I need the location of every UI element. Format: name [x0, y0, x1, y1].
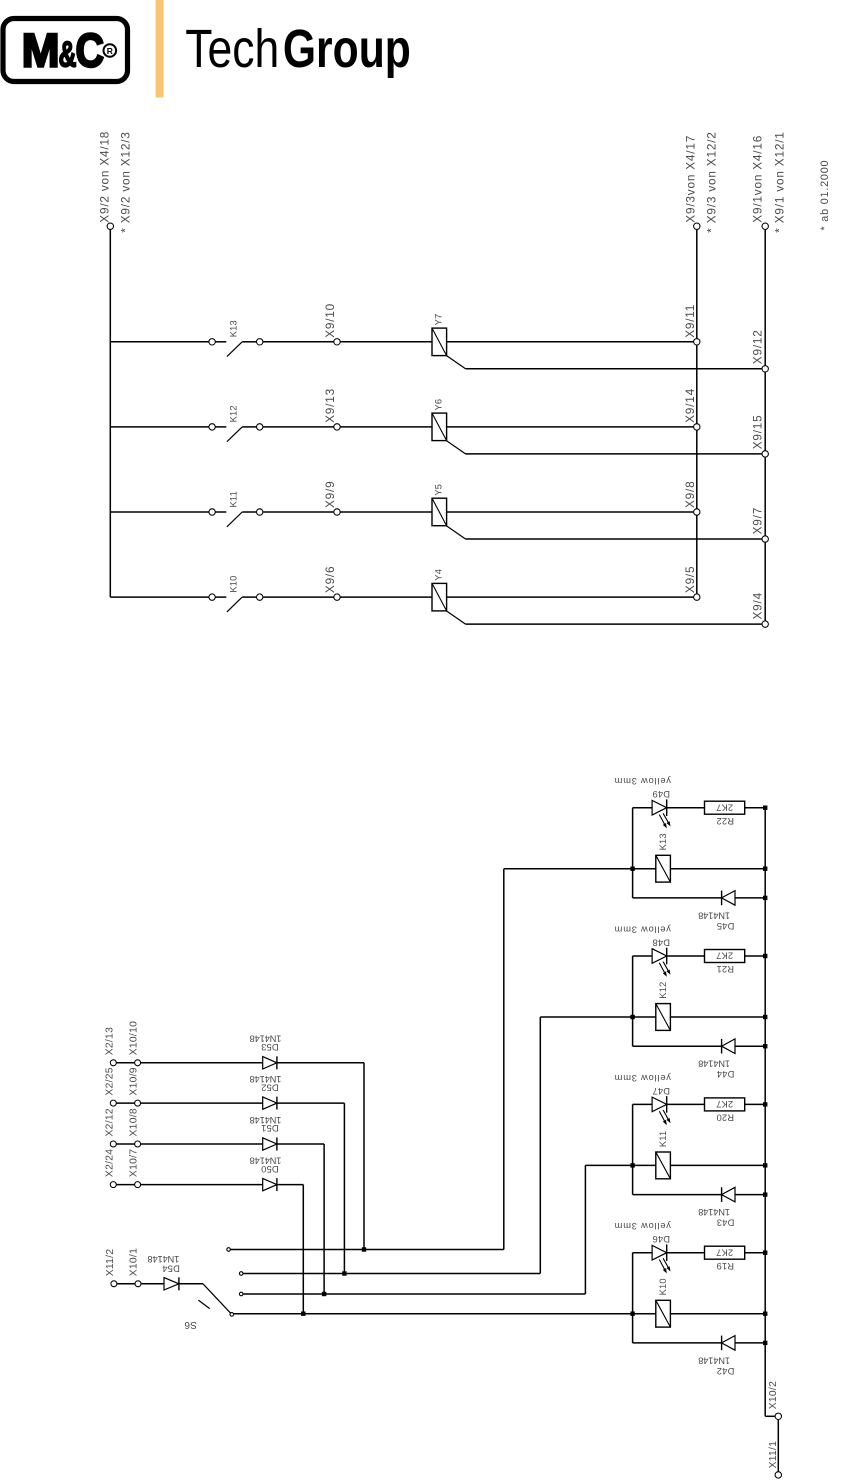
junction feeder/K11 — [630, 1163, 634, 1167]
svg-text:&: & — [59, 33, 77, 74]
svg-text:X9/12: X9/12 — [751, 329, 765, 364]
label 1N4148 for D44 — [698, 1059, 730, 1069]
svg-text:D49: D49 — [652, 789, 670, 799]
wire: feed line 1 — [230, 869, 632, 1250]
label 1N4148 for D54 — [148, 1254, 180, 1264]
svg-text:S6: S6 — [184, 1319, 197, 1330]
svg-text:X11/1: X11/1 — [768, 1441, 779, 1469]
label K12 coil — [658, 982, 668, 999]
node X9/15 — [762, 451, 768, 457]
wire: left bus vertical — [109, 230, 111, 597]
diode D51 1N4148 — [263, 1138, 277, 1151]
svg-text:X9/5: X9/5 — [683, 566, 697, 593]
wire: right bus vertical (bottom) — [765, 808, 775, 1417]
wire: diode D52 to drop — [277, 1103, 345, 1273]
label 2K7 for R21 — [716, 951, 733, 961]
wire: resistor to bus — [745, 807, 766, 809]
wire: node to valve Y5 — [340, 511, 432, 513]
label yellow 3mm for D49 — [614, 776, 671, 786]
node X9/8 — [694, 509, 700, 515]
label * X9/2 von X12/3 — [119, 131, 133, 232]
svg-text:D51: D51 — [261, 1123, 279, 1133]
label X10/1 — [129, 1248, 140, 1276]
resistor R20 2K7 — [705, 1098, 745, 1111]
label 2K7 for R22 — [716, 802, 733, 812]
svg-text:K10: K10 — [229, 575, 239, 592]
wire: rung 1 to node — [263, 341, 334, 343]
wire: LED row K10 group — [633, 1252, 653, 1254]
node X9/5 — [694, 594, 700, 600]
label D46 — [652, 1234, 670, 1244]
wire: valve Y6 diagonal drop — [446, 441, 762, 454]
wire: X11/2 to diode D54 — [117, 1283, 164, 1285]
svg-text:D45: D45 — [717, 921, 735, 931]
wire: diode row K12 group — [633, 1045, 722, 1047]
label 1N4148 for D51 — [250, 1115, 282, 1125]
svg-text:D54: D54 — [162, 1263, 180, 1273]
svg-text:2K7: 2K7 — [716, 802, 733, 812]
wire: LED row K12 group — [633, 955, 653, 957]
wire: rung 4 left segment — [110, 596, 208, 598]
diode D54 1N4148 — [164, 1277, 179, 1290]
svg-text:X9/1von X4/16: X9/1von X4/16 — [750, 135, 764, 223]
junction bus relay row 1 — [763, 867, 767, 871]
wire: rung 2 left segment — [110, 426, 208, 428]
junction drop 2 — [342, 1271, 346, 1275]
label X9/4 — [751, 592, 765, 619]
orange divider bar — [156, 0, 164, 98]
LED D49 yellow 3mm — [652, 799, 670, 828]
svg-text:X10/1: X10/1 — [129, 1248, 140, 1276]
label D44 — [717, 1069, 735, 1079]
svg-text:D47: D47 — [652, 1086, 670, 1096]
svg-text:Group: Group — [283, 19, 411, 79]
label X9/9 — [323, 481, 337, 508]
wire: bus1 vertical — [696, 230, 698, 594]
svg-text:* X9/2 von X12/3: * X9/2 von X12/3 — [119, 131, 133, 232]
svg-text:yellow 3mm: yellow 3mm — [614, 776, 671, 786]
wire: valve Y5 diagonal drop — [446, 526, 762, 539]
wire: diode to bus — [735, 1045, 765, 1047]
label 1N4148 for D43 — [698, 1207, 730, 1217]
solenoid valve Y5 — [432, 498, 447, 526]
junction feeder/K12 — [630, 1015, 634, 1019]
relay coil K11 — [633, 1152, 766, 1179]
node: terminal X10/1 — [135, 1281, 141, 1287]
diode D53 1N4148 — [263, 1056, 277, 1069]
wire: valve Y6 to bus1 — [447, 426, 694, 428]
node X9/7 — [762, 536, 768, 542]
label K13 — [229, 320, 239, 337]
node X9/12 — [762, 366, 768, 372]
svg-text:Y6: Y6 — [434, 399, 444, 411]
label R22 — [716, 816, 734, 826]
node: terminal X10/2 — [775, 1413, 781, 1419]
wire: diode to bus — [735, 1342, 765, 1344]
label X10/10 — [128, 1021, 139, 1055]
label 1N4148 for D50 — [250, 1156, 282, 1166]
node: feed line 3 start — [239, 1292, 243, 1296]
label D51 — [261, 1123, 279, 1133]
node: terminal X11/2 — [111, 1281, 117, 1287]
label D54 — [162, 1263, 180, 1273]
contact K13 — [209, 339, 263, 357]
wire: diode row K11 group — [633, 1194, 722, 1196]
wire: valve Y4 diagonal drop — [446, 611, 762, 624]
svg-text:2K7: 2K7 — [716, 951, 733, 961]
junction bus relay row 3 — [763, 1163, 767, 1167]
label K11 coil — [658, 1131, 668, 1147]
label X2/24 — [104, 1149, 115, 1177]
wire: rung 3 to node — [263, 511, 334, 513]
node: terminal X10/7 — [135, 1182, 141, 1188]
note * ab 01.2000 — [819, 160, 831, 231]
svg-text:K12: K12 — [229, 405, 239, 422]
node: switch S6 output — [230, 1313, 234, 1317]
label X9/10 — [323, 303, 337, 338]
diode D52 1N4148 — [263, 1097, 277, 1110]
label X9/5 — [683, 566, 697, 593]
wire: diode row K10 group — [633, 1342, 722, 1344]
wire: row 1 to diode D53 — [116, 1062, 262, 1064]
node: terminal X9/3 (bus1 top) — [694, 223, 700, 229]
wire: row 4 to diode D50 — [116, 1184, 262, 1186]
LED D47 yellow 3mm — [652, 1096, 670, 1125]
label X10/8 — [128, 1108, 139, 1136]
svg-text:D50: D50 — [261, 1164, 279, 1174]
wire: X10/2 to X11/1 — [777, 1420, 779, 1472]
svg-text:X9/9: X9/9 — [323, 481, 337, 508]
svg-text:2K7: 2K7 — [716, 1099, 733, 1109]
wire: rung 4 to node — [263, 596, 334, 598]
label X10/7 — [128, 1149, 139, 1177]
relay coil K13 — [633, 855, 766, 882]
svg-text:yellow 3mm: yellow 3mm — [614, 925, 671, 935]
svg-text:X9/7: X9/7 — [751, 507, 765, 534]
svg-text:R21: R21 — [716, 964, 734, 974]
node: terminal X2/12 — [110, 1141, 116, 1147]
svg-text:* X9/1 von X12/1: * X9/1 von X12/1 — [773, 131, 787, 232]
junction bus diode row 2 — [763, 1044, 767, 1048]
wire: node to valve Y4 — [340, 596, 432, 598]
svg-text:yellow 3mm: yellow 3mm — [614, 1221, 671, 1231]
label D47 — [652, 1086, 670, 1096]
wire: LED to resistor R19 — [667, 1252, 705, 1254]
wire: LED to resistor R20 — [667, 1103, 705, 1105]
wire: rung 2 to node — [263, 426, 334, 428]
label X9/15 — [751, 414, 765, 449]
label 2K7 for R20 — [716, 1099, 733, 1109]
label yellow 3mm for D47 — [614, 1073, 671, 1083]
label D49 — [652, 789, 670, 799]
label X9/1von X4/16 — [750, 135, 764, 223]
wire: branch vertical K12 group — [632, 956, 634, 1046]
label Y7 — [434, 314, 444, 326]
solenoid valve Y4 — [432, 583, 447, 611]
label X2/12 — [104, 1108, 115, 1136]
junction drop 4 — [301, 1312, 305, 1316]
svg-text:X9/13: X9/13 — [323, 388, 337, 423]
svg-text:K13: K13 — [658, 833, 668, 850]
svg-text:X10/10: X10/10 — [128, 1021, 139, 1055]
junction bus relay row 2 — [763, 1015, 767, 1019]
wire: D54 to switch S6 — [179, 1283, 203, 1285]
svg-text:C: C — [76, 23, 105, 76]
relay coil K10 — [633, 1300, 766, 1327]
label * X9/1 von X12/1 — [773, 131, 787, 232]
diode D42 1N4148 (freewheel) — [722, 1336, 735, 1351]
node: terminal X9/1 (bus2 top) — [762, 223, 768, 229]
wire: LED row K11 group — [633, 1103, 653, 1105]
label K10 — [229, 575, 239, 592]
node X9/13 — [334, 424, 340, 430]
svg-text:X2/12: X2/12 — [104, 1108, 115, 1136]
wire: valve Y7 diagonal drop — [446, 355, 762, 368]
node X9/4 — [762, 621, 768, 627]
wire: resistor to bus — [745, 1103, 766, 1105]
wire: rung 3 left segment — [110, 511, 208, 513]
diode D43 1N4148 (freewheel) — [722, 1187, 735, 1202]
svg-text:R19: R19 — [716, 1261, 734, 1271]
svg-text:D42: D42 — [717, 1366, 735, 1376]
svg-text:1N4148: 1N4148 — [148, 1254, 180, 1264]
junction bus LED row 2 — [763, 954, 767, 958]
label R20 — [716, 1113, 734, 1123]
svg-text:X10/9: X10/9 — [128, 1067, 139, 1095]
wire: branch vertical K10 group — [632, 1253, 634, 1343]
label X10/2 — [768, 1381, 779, 1409]
label X10/9 — [128, 1067, 139, 1095]
svg-text:R22: R22 — [716, 816, 734, 826]
svg-text:2K7: 2K7 — [716, 1247, 733, 1257]
wire: diode to bus — [735, 1194, 765, 1196]
svg-text:D48: D48 — [652, 937, 670, 947]
node X9/6 — [334, 594, 340, 600]
svg-text:K10: K10 — [658, 1278, 668, 1295]
label 1N4148 for D45 — [698, 910, 730, 920]
label D48 — [652, 937, 670, 947]
junction bus LED row 4 — [763, 1251, 767, 1255]
node: terminal X2/13 — [110, 1060, 116, 1066]
svg-text:K11: K11 — [658, 1131, 668, 1147]
node: feed line 2 start — [239, 1272, 243, 1276]
wire: feed line 4 (S6 to K10 row) — [234, 1313, 633, 1315]
svg-text:X10/8: X10/8 — [128, 1108, 139, 1136]
wire: LED row K13 group — [633, 807, 653, 809]
svg-text:X9/4: X9/4 — [751, 592, 765, 619]
label X11/2 — [105, 1249, 116, 1277]
label X9/3von X4/17 — [684, 135, 698, 223]
wire: branch vertical K11 group — [632, 1104, 634, 1194]
label D52 — [261, 1082, 279, 1092]
svg-text:X9/14: X9/14 — [683, 388, 697, 423]
svg-text:Y4: Y4 — [434, 569, 444, 581]
svg-text:K12: K12 — [658, 982, 668, 999]
LED D48 yellow 3mm — [652, 948, 670, 977]
resistor R19 2K7 — [705, 1246, 745, 1259]
label K10 coil — [658, 1278, 668, 1295]
label R19 — [716, 1261, 734, 1271]
label D43 — [717, 1218, 735, 1228]
LED D46 yellow 3mm — [652, 1244, 670, 1273]
label S6 — [184, 1319, 197, 1330]
label D50 — [261, 1164, 279, 1174]
svg-text:1N4148: 1N4148 — [698, 1207, 730, 1217]
label 2K7 for R19 — [716, 1247, 733, 1257]
svg-text:* X9/3 von X12/2: * X9/3 von X12/2 — [705, 131, 719, 232]
label Y4 — [434, 569, 444, 581]
wire: diode row K13 group — [633, 897, 722, 899]
junction bus relay row 4 — [763, 1312, 767, 1316]
svg-text:D52: D52 — [261, 1082, 279, 1092]
svg-text:X9/8: X9/8 — [683, 481, 697, 508]
label D45 — [717, 921, 735, 931]
svg-text:X2/25: X2/25 — [104, 1067, 115, 1095]
wire: valve Y4 to bus1 — [447, 596, 694, 598]
label Y6 — [434, 399, 444, 411]
node X9/10 — [334, 339, 340, 345]
label K11 — [229, 491, 239, 507]
label X9/11 — [683, 304, 697, 338]
node: terminal X2/24 — [110, 1182, 116, 1188]
label X2/25 — [104, 1067, 115, 1095]
svg-text:* ab 01.2000: * ab 01.2000 — [819, 160, 831, 231]
contact K12 — [209, 424, 263, 442]
svg-text:1N4148: 1N4148 — [698, 1355, 730, 1365]
svg-text:D53: D53 — [261, 1042, 279, 1052]
svg-text:Y5: Y5 — [434, 484, 444, 496]
label 1N4148 for D52 — [250, 1074, 282, 1084]
wire: row 3 to diode D51 — [116, 1143, 262, 1145]
wire: diode D53 to drop — [277, 1063, 364, 1250]
wire: row 2 to diode D52 — [116, 1102, 262, 1104]
TechGroup wordmark — [185, 19, 410, 79]
junction drop 1 — [362, 1247, 366, 1251]
node: terminal X9/2 (left bus top) — [107, 223, 113, 229]
junction feeder/K13 — [630, 867, 634, 871]
wire: valve Y7 to bus1 — [447, 341, 694, 343]
svg-text:X9/15: X9/15 — [751, 414, 765, 449]
svg-text:D44: D44 — [717, 1069, 735, 1079]
node X9/9 — [334, 509, 340, 515]
node X9/14 — [694, 424, 700, 430]
label X11/1 — [768, 1441, 779, 1469]
label R21 — [716, 964, 734, 974]
solenoid valve Y7 — [432, 328, 447, 356]
label Y5 — [434, 484, 444, 496]
svg-text:K11: K11 — [229, 491, 239, 507]
wire: rung 1 left segment — [110, 341, 208, 343]
resistor R22 2K7 — [705, 801, 745, 814]
label X9/6 — [323, 566, 337, 593]
wire: resistor to bus — [745, 955, 766, 957]
contact K10 — [209, 594, 263, 612]
label X9/12 — [751, 329, 765, 364]
diode D45 1N4148 (freewheel) — [722, 891, 735, 906]
label X9/14 — [683, 388, 697, 423]
wire: valve Y5 to bus1 — [447, 511, 694, 513]
svg-text:X10/2: X10/2 — [768, 1381, 779, 1409]
junction feeder/K10 — [630, 1312, 634, 1316]
svg-text:M: M — [22, 23, 60, 76]
svg-text:yellow 3mm: yellow 3mm — [614, 1073, 671, 1083]
svg-text:X11/2: X11/2 — [105, 1249, 116, 1277]
node: terminal X10/10 — [135, 1060, 141, 1066]
svg-text:X9/2 von X4/18: X9/2 von X4/18 — [98, 131, 112, 223]
diode D44 1N4148 (freewheel) — [722, 1039, 735, 1054]
svg-text:X2/13: X2/13 — [104, 1027, 115, 1055]
node X9/11 — [694, 339, 700, 345]
label X9/2 von X4/18 — [98, 131, 112, 223]
M&C logo — [3, 19, 128, 82]
svg-text:X9/11: X9/11 — [683, 304, 697, 338]
node: terminal X2/25 — [110, 1100, 116, 1106]
label X9/13 — [323, 388, 337, 423]
svg-text:Y7: Y7 — [434, 314, 444, 326]
label X2/13 — [104, 1027, 115, 1055]
svg-text:1N4148: 1N4148 — [698, 910, 730, 920]
svg-text:X2/24: X2/24 — [104, 1149, 115, 1177]
wire: branch vertical K13 group — [632, 808, 634, 898]
diode D50 1N4148 — [263, 1178, 277, 1191]
label 1N4148 for D42 — [698, 1355, 730, 1365]
wire: diode to bus — [735, 897, 765, 899]
label yellow 3mm for D48 — [614, 925, 671, 935]
label K12 — [229, 405, 239, 422]
svg-text:R20: R20 — [716, 1113, 734, 1123]
node: feed line 1 start — [227, 1248, 231, 1252]
junction drop 3 — [322, 1292, 326, 1296]
svg-text:D43: D43 — [717, 1218, 735, 1228]
junction bus diode row 3 — [763, 1192, 767, 1196]
wire: node to valve Y6 — [340, 426, 432, 428]
wire: diode D50 to drop — [277, 1185, 303, 1314]
svg-text:1N4148: 1N4148 — [698, 1059, 730, 1069]
label K13 coil — [658, 833, 668, 850]
label D42 — [717, 1366, 735, 1376]
wire: feed line 2 — [243, 1017, 633, 1274]
label * X9/3 von X12/2 — [705, 131, 719, 232]
label X9/7 — [751, 507, 765, 534]
label 1N4148 for D53 — [250, 1034, 282, 1044]
junction bus LED row 1 — [763, 806, 767, 810]
svg-text:X9/3von X4/17: X9/3von X4/17 — [684, 135, 698, 223]
node: terminal X10/9 — [135, 1100, 141, 1106]
svg-text:D46: D46 — [652, 1234, 670, 1244]
relay coil K12 — [633, 1004, 766, 1031]
wire: node to valve Y7 — [340, 341, 432, 343]
junction bus LED row 3 — [763, 1102, 767, 1106]
label X9/8 — [683, 481, 697, 508]
contact K11 — [209, 509, 263, 527]
label D53 — [261, 1042, 279, 1052]
wire: diode D51 to drop — [277, 1144, 324, 1294]
wire: bus2 vertical — [764, 230, 766, 621]
wire: feed line 3 — [243, 1165, 633, 1294]
wire: resistor to bus — [745, 1252, 766, 1254]
wire: LED to resistor R22 — [667, 807, 705, 809]
svg-text:X9/10: X9/10 — [323, 303, 337, 338]
wire: LED to resistor R21 — [667, 955, 705, 957]
node: terminal X11/1 — [775, 1472, 781, 1478]
label yellow 3mm for D46 — [614, 1221, 671, 1231]
svg-text:R: R — [107, 46, 113, 56]
junction bus diode row 1 — [763, 896, 767, 900]
node: terminal X10/8 — [135, 1141, 141, 1147]
solenoid valve Y6 — [432, 413, 447, 441]
svg-text:Tech: Tech — [185, 19, 279, 79]
svg-text:K13: K13 — [229, 320, 239, 337]
